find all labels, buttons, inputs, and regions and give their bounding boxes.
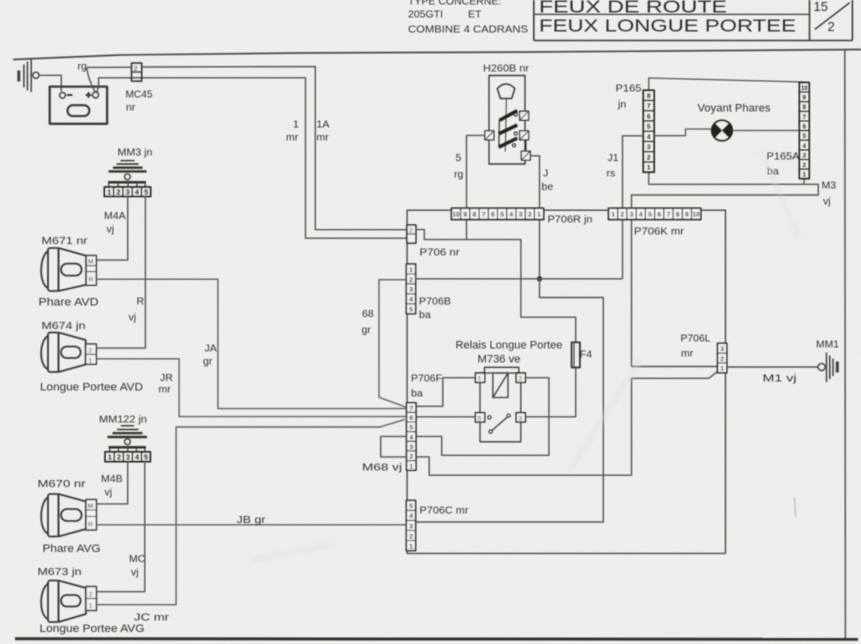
svg-text:vj: vj (129, 312, 137, 324)
svg-text:3: 3 (409, 287, 413, 294)
svg-text:H260B nr: H260B nr (483, 63, 530, 75)
wire JB gr (M670 R to P706C pin3) (96, 524, 406, 526)
svg-text:R: R (88, 522, 93, 529)
svg-text:2: 2 (134, 66, 138, 73)
label JR mr (159, 372, 174, 396)
svg-text:2: 2 (117, 455, 121, 462)
svg-text:rg: rg (454, 169, 463, 181)
title block text: type concerne (408, 0, 528, 36)
page bottom border (15, 637, 858, 641)
lamp M670 Phare AVG (41, 494, 96, 537)
svg-text:10: 10 (693, 212, 701, 219)
connector strip MM3 pins 1-5 (104, 187, 150, 197)
wire relay pin2 to P706F pin4 (416, 378, 549, 456)
label P165 jn (616, 83, 642, 111)
wire 5 rg (H260B to P706R pin9) (467, 135, 485, 239)
svg-text:nr: nr (126, 102, 136, 114)
svg-text:15: 15 (814, 0, 828, 14)
svg-text:5: 5 (456, 152, 462, 164)
relay contact arm (488, 414, 511, 433)
svg-text:1: 1 (89, 603, 93, 610)
svg-text:mr: mr (681, 348, 694, 360)
label wire 1 mr (286, 119, 299, 144)
wire node horizontal (P706B pin2 to J1) (416, 278, 623, 280)
svg-text:3: 3 (409, 523, 413, 530)
switch H260B wiper bars (499, 111, 526, 152)
svg-text:M68 vj: M68 vj (362, 462, 402, 474)
label P706R jn (548, 214, 593, 226)
svg-text:10: 10 (801, 86, 808, 92)
label MC45 nr (126, 89, 153, 114)
svg-text:2: 2 (409, 277, 413, 284)
label H260B nr (483, 63, 530, 75)
svg-text:1: 1 (537, 212, 541, 219)
svg-text:M673 jn: M673 jn (38, 566, 82, 578)
scan artifact (795, 497, 796, 517)
svg-text:3: 3 (409, 444, 413, 451)
fuse F4 (572, 342, 580, 367)
svg-text:vj: vj (107, 224, 115, 236)
label R vj (129, 296, 145, 324)
svg-text:MC45: MC45 (126, 89, 153, 101)
svg-text:vj: vj (105, 487, 113, 499)
switch H260B pin right top (520, 111, 529, 120)
svg-text:M670 nr: M670 nr (38, 478, 87, 490)
svg-text:4: 4 (510, 212, 514, 219)
svg-text:2: 2 (828, 19, 835, 34)
label P706 nr (420, 247, 461, 259)
title: FEUX DE ROUTE / FEUX LONGUE PORTEE (539, 0, 796, 36)
svg-text:Phare AVD: Phare AVD (39, 297, 99, 309)
label wire 1A mr (317, 119, 330, 144)
label Phare AVG (43, 543, 101, 555)
svg-text:5: 5 (409, 425, 413, 432)
label 68 gr (362, 308, 374, 336)
label MM122 jn (99, 414, 147, 426)
relay coil (493, 373, 508, 398)
wire relay pin1 to P706F pin7 (416, 378, 475, 407)
svg-text:1: 1 (478, 376, 482, 383)
label J be (542, 168, 554, 194)
svg-text:1: 1 (108, 455, 112, 462)
svg-text:M3: M3 (822, 180, 837, 192)
svg-text:6: 6 (657, 212, 661, 219)
svg-text:M671 nr: M671 nr (42, 235, 89, 247)
ground MM1 (818, 353, 839, 383)
svg-text:vj: vj (131, 567, 139, 579)
svg-text:ba: ba (419, 309, 431, 321)
wire P165 pin4 to voyant (654, 129, 711, 136)
label JA gr (203, 343, 217, 368)
label MM3 jn (118, 147, 153, 159)
svg-text:8: 8 (676, 212, 680, 219)
svg-text:Relais Longue Portee: Relais Longue Portee (456, 340, 563, 352)
svg-text:6: 6 (409, 415, 413, 422)
svg-text:6: 6 (491, 212, 495, 219)
wire M68 vj jumper (P706F pin4 to pin2) (381, 436, 407, 457)
svg-text:P165: P165 (616, 83, 642, 95)
svg-text:5: 5 (409, 503, 413, 510)
wire JA gr (M671 R to P706F pin7) (96, 279, 406, 408)
svg-text:4: 4 (409, 297, 413, 304)
svg-text:M4B: M4B (101, 473, 123, 485)
svg-text:M1 vj: M1 vj (763, 373, 797, 385)
label M3 vj (822, 180, 837, 208)
svg-text:1: 1 (647, 165, 651, 172)
connector strip P706C mr (406, 500, 415, 550)
svg-text:1: 1 (409, 543, 413, 550)
svg-text:JA: JA (205, 343, 217, 355)
label P706B ba (419, 296, 451, 322)
label M68 vj (362, 462, 402, 474)
lamp M673 Longue Portee AVG (41, 581, 96, 623)
svg-text:7: 7 (482, 212, 486, 219)
svg-text:P165A: P165A (767, 151, 800, 163)
svg-text:68: 68 (362, 308, 374, 320)
svg-text:P706C mr: P706C mr (420, 505, 470, 517)
svg-text:2: 2 (89, 348, 93, 355)
svg-text:1A: 1A (317, 119, 330, 131)
svg-text:9: 9 (685, 212, 689, 219)
svg-text:MC: MC (129, 553, 146, 565)
svg-text:3: 3 (630, 212, 634, 219)
label MM1 (816, 339, 839, 351)
svg-text:4: 4 (409, 513, 413, 520)
wire MC vj (MM122 pin5 to M673) (96, 462, 144, 592)
label M4B vj (101, 473, 123, 499)
svg-text:P706F: P706F (411, 373, 442, 385)
wire M3 inside to P706L (632, 366, 718, 368)
svg-text:ET: ET (468, 9, 482, 21)
svg-text:4: 4 (639, 212, 643, 219)
svg-text:COMBINE 4 CADRANS: COMBINE 4 CADRANS (408, 24, 528, 36)
label M673 jn (38, 566, 82, 578)
title block frame (534, 0, 853, 41)
svg-text:10: 10 (452, 212, 460, 219)
voyant phares indicator lamp (712, 120, 733, 141)
wire JR mr (M674 pin1 to P706F pin6) (96, 359, 406, 417)
svg-text:gr: gr (362, 324, 372, 336)
svg-text:MM3 jn: MM3 jn (118, 147, 153, 159)
page number 15/2 (814, 0, 850, 34)
wire feed upper (to 1A mr) (87, 67, 407, 230)
label F4 (580, 349, 592, 361)
svg-text:Longue Portee AVD: Longue Portee AVD (40, 382, 143, 394)
lamp M671 Phare AVD (41, 248, 96, 291)
svg-text:6: 6 (647, 113, 651, 120)
svg-text:gr: gr (203, 356, 213, 368)
label Longue Portee AVD (40, 382, 143, 394)
wire M1 vj (P706L to ground MM1) (727, 366, 818, 368)
svg-text:2: 2 (409, 454, 413, 461)
svg-text:J1: J1 (608, 152, 619, 164)
switch H260B body (489, 76, 525, 165)
label Relais Longue Portee (456, 340, 563, 352)
label Voyant Phares (698, 103, 771, 115)
svg-text:1: 1 (409, 463, 413, 470)
connector strip P706B ba (406, 264, 415, 314)
svg-text:mr: mr (159, 384, 172, 396)
svg-text:M674 jn: M674 jn (42, 320, 86, 332)
wire J be (H260B to junction node) (530, 156, 539, 279)
svg-text:3: 3 (126, 455, 130, 462)
svg-text:1: 1 (720, 366, 724, 373)
svg-text:JR: JR (160, 372, 173, 384)
svg-text:Longue Portee AVG: Longue Portee AVG (40, 623, 145, 635)
label M674 jn (42, 320, 86, 332)
svg-text:J: J (543, 168, 548, 180)
label M1 vj (763, 373, 797, 385)
svg-text:Phare AVG: Phare AVG (43, 543, 101, 555)
label P706C mr (420, 505, 470, 517)
svg-text:3: 3 (519, 415, 523, 422)
svg-text:mr: mr (286, 132, 299, 144)
svg-text:5: 5 (647, 124, 651, 131)
lamp M674 Longue Portee AVD (41, 333, 96, 373)
svg-text:1: 1 (293, 119, 299, 131)
svg-text:2: 2 (89, 592, 93, 599)
relay pin 2 (516, 373, 525, 383)
svg-text:2: 2 (519, 376, 523, 383)
svg-text:3: 3 (647, 144, 651, 151)
battery (50, 87, 107, 124)
svg-text:rs: rs (607, 168, 616, 180)
wire node to P706C pin3 (416, 279, 604, 522)
connector P165 jn (643, 90, 654, 172)
page right border (844, 50, 847, 641)
svg-text:2: 2 (720, 356, 724, 363)
label Longue Portee AVG (40, 623, 145, 635)
svg-text:8: 8 (647, 93, 651, 100)
label rg (78, 61, 87, 73)
svg-text:4: 4 (409, 434, 413, 441)
svg-text:TYPE CONCERNE:: TYPE CONCERNE: (408, 0, 501, 8)
svg-text:M736 ve: M736 ve (478, 354, 521, 366)
svg-text:M: M (88, 259, 93, 266)
svg-text:P706B: P706B (419, 296, 451, 308)
svg-text:JC mr: JC mr (134, 612, 170, 624)
label M4A vj (104, 210, 126, 236)
label JC mr (134, 612, 170, 624)
svg-text:7: 7 (667, 212, 671, 219)
svg-text:2: 2 (621, 212, 625, 219)
svg-text:2: 2 (116, 190, 120, 197)
wire 68 gr (P706B pin2 to P706F pin7) (379, 280, 406, 407)
wire rg (battery + to feed line 1) (87, 68, 95, 92)
label M736 ve (478, 354, 521, 366)
svg-text:R: R (89, 277, 94, 284)
svg-text:jn: jn (617, 99, 626, 111)
switch H260B pin left (5) (485, 131, 494, 140)
svg-text:7: 7 (647, 103, 651, 110)
connector P165A ba (799, 82, 809, 178)
svg-text:1: 1 (409, 267, 413, 274)
switch H260B pin right mid (520, 131, 529, 140)
svg-text:P706K mr: P706K mr (634, 226, 685, 238)
svg-text:mr: mr (317, 132, 330, 144)
relay pin 1 (475, 373, 484, 383)
wire 1A feed inside box to F4 (416, 230, 576, 343)
fuse box P706 outline (407, 210, 725, 553)
svg-text:rg: rg (78, 61, 87, 73)
svg-text:Voyant Phares: Voyant Phares (698, 103, 771, 115)
label JB gr (237, 514, 267, 526)
svg-text:3: 3 (126, 190, 130, 197)
svg-text:be: be (542, 181, 554, 193)
instrument cluster box (649, 78, 804, 184)
svg-text:205GTI: 205GTI (408, 9, 443, 21)
wire J1 rs (P165 pin4 to P706K pin2) (623, 136, 644, 279)
label P706F ba (411, 373, 442, 400)
wire JC mr (M673 pin1 to P706F pin6 lower) (96, 419, 404, 604)
connector strip P706F ba (407, 403, 417, 471)
wire battery minus to ground (39, 75, 61, 91)
svg-text:ba: ba (411, 388, 423, 400)
svg-text:5: 5 (648, 212, 652, 219)
label P706K mr (634, 226, 685, 238)
svg-text:2: 2 (528, 212, 532, 219)
svg-text:5: 5 (500, 212, 504, 219)
wire voyant to P165A pin6 (732, 130, 799, 132)
svg-text:5: 5 (144, 455, 148, 462)
svg-text:7: 7 (409, 405, 413, 412)
connector P706 nr (pin 2) (407, 225, 416, 243)
label P165A ba (767, 151, 800, 178)
label M671 nr (42, 235, 89, 247)
svg-text:P706R jn: P706R jn (548, 214, 593, 226)
label 5 rg (454, 152, 463, 181)
svg-text:5: 5 (478, 415, 482, 422)
label P706L mr (681, 333, 711, 360)
switch H260B pin J (bottom right) (521, 151, 530, 160)
wire M3 vj (P165A pin1 to P706K pin3) (632, 184, 819, 366)
label Phare AVD (39, 297, 99, 309)
svg-text:3: 3 (519, 212, 523, 219)
svg-text:P706L: P706L (681, 333, 711, 345)
wire relay pin3 to fuse F4 (525, 368, 575, 417)
svg-text:8: 8 (473, 212, 477, 219)
connector P706L mr (718, 343, 727, 373)
svg-text:1: 1 (107, 190, 111, 197)
wire R vj (MM3 pin5 to M674) (96, 197, 145, 349)
svg-text:F4: F4 (580, 349, 592, 361)
svg-text:FEUX DE ROUTE: FEUX DE ROUTE (539, 0, 727, 17)
label MC vj (129, 553, 146, 579)
svg-text:1: 1 (89, 358, 93, 365)
connector MC45 (132, 63, 142, 81)
wire feed lower (to 1 mr) (97, 78, 407, 238)
svg-text:MM122 jn: MM122 jn (99, 414, 147, 426)
svg-text:2: 2 (409, 228, 413, 235)
svg-text:4: 4 (135, 455, 139, 462)
svg-text:2: 2 (647, 154, 651, 161)
junction node (J/J1/JA nets) (537, 276, 542, 281)
connector strip P706K mr (pins 1-10) (609, 208, 701, 219)
svg-text:5: 5 (144, 190, 148, 197)
svg-text:MM1: MM1 (816, 339, 839, 351)
relay pin 3 (516, 413, 525, 423)
svg-text:vj: vj (823, 196, 831, 208)
relay M736 body (480, 367, 521, 442)
relay pin 5 (475, 413, 484, 423)
page top border (13, 50, 861, 60)
svg-text:1: 1 (611, 212, 615, 219)
svg-text:3: 3 (720, 346, 724, 353)
wire M4B vj (MM122 pin3 to M670) (96, 462, 127, 504)
wire P706F pin2 to P706L pin1 (416, 372, 718, 476)
label J1 rs (607, 152, 619, 180)
svg-text:M: M (88, 503, 93, 510)
svg-text:5: 5 (409, 307, 413, 314)
label M670 nr (38, 478, 87, 490)
svg-text:P706 nr: P706 nr (420, 247, 461, 259)
wire relay pin5 to P706F pin6 (416, 416, 475, 418)
ground (battery ground, top left) (17, 59, 39, 92)
svg-text:2: 2 (409, 533, 413, 540)
svg-text:M4A: M4A (104, 210, 126, 222)
svg-text:4: 4 (135, 190, 139, 197)
wire M4A vj (MM3 pin3 to M671) (96, 197, 127, 261)
svg-text:4: 4 (647, 134, 651, 141)
svg-text:R: R (137, 296, 145, 308)
svg-text:9: 9 (463, 212, 467, 219)
svg-text:JB gr: JB gr (237, 514, 267, 526)
connector strip P706R jn (pins 10-1) (451, 208, 543, 219)
svg-text:FEUX LONGUE PORTEE: FEUX LONGUE PORTEE (539, 16, 796, 36)
ground MM3 (108, 161, 147, 188)
connector strip MM122 pins 1-5 (105, 452, 150, 462)
ground MM122 (108, 426, 148, 452)
